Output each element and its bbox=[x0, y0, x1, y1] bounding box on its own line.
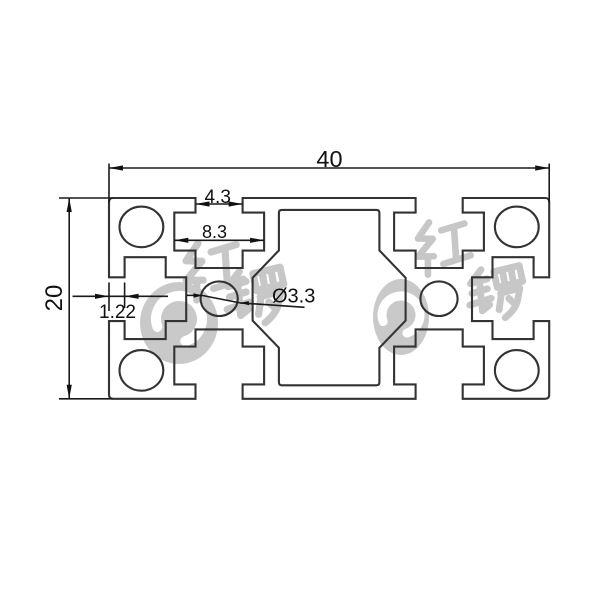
hole top-right bbox=[495, 207, 539, 248]
watermark right stamp bbox=[373, 217, 527, 355]
profile outer outline with T-slots bbox=[109, 198, 549, 399]
watermark left stamp bbox=[140, 238, 289, 364]
watermark left char luo bbox=[222, 266, 288, 328]
hole center-left bbox=[201, 281, 238, 316]
watermark right char luo bbox=[465, 264, 527, 322]
watermark left char hong bbox=[181, 238, 245, 301]
dimension 20 bbox=[59, 198, 113, 399]
svg-text:8.3: 8.3 bbox=[202, 222, 227, 242]
svg-text:4.3: 4.3 bbox=[204, 187, 230, 208]
dimension 8.3 bbox=[174, 239, 264, 241]
svg-text:40: 40 bbox=[316, 146, 342, 172]
hole top-left bbox=[119, 207, 163, 248]
svg-text:Ø3.3: Ø3.3 bbox=[272, 285, 315, 307]
hole center-right bbox=[420, 281, 457, 316]
dimension 40 bbox=[109, 164, 549, 203]
dimension 4.3 bbox=[196, 203, 243, 205]
hole bottom-left bbox=[119, 350, 163, 391]
dimension 1.22 bbox=[73, 283, 169, 312]
svg-text:1.22: 1.22 bbox=[99, 302, 136, 323]
hole bottom-right bbox=[495, 350, 539, 391]
svg-text:20: 20 bbox=[41, 285, 68, 312]
center cavity bbox=[253, 210, 406, 385]
leader diameter 3.3 bbox=[187, 295, 305, 307]
watermark left logo ring bbox=[140, 282, 218, 364]
watermark right logo ring bbox=[373, 279, 429, 355]
watermark right char hong bbox=[414, 217, 473, 275]
